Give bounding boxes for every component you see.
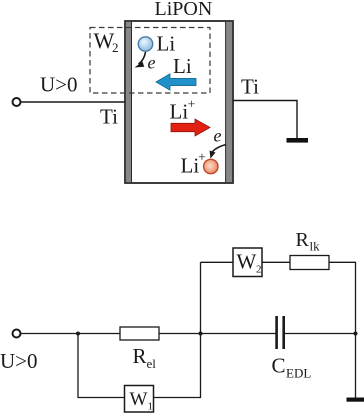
svg-text:R: R bbox=[133, 344, 147, 368]
svg-text:el: el bbox=[147, 356, 157, 371]
svg-text:2: 2 bbox=[256, 264, 262, 276]
capacitor CEDL bbox=[275, 316, 278, 349]
wire node A down bbox=[78, 334, 125, 398]
wire left electrode bbox=[21, 101, 125, 103]
svg-text:1: 1 bbox=[148, 401, 154, 413]
svg-text:W: W bbox=[130, 389, 148, 410]
svg-text:U>0: U>0 bbox=[40, 73, 78, 97]
svg-text:Li: Li bbox=[173, 54, 192, 78]
wire Rel to capacitor bbox=[159, 333, 276, 335]
svg-text:EDL: EDL bbox=[286, 366, 311, 381]
svg-text:U>0: U>0 bbox=[0, 349, 38, 373]
wire top branch to W2 bbox=[201, 261, 234, 263]
ground circuit bbox=[347, 398, 364, 402]
svg-text:R: R bbox=[296, 229, 310, 251]
electron arrow right bbox=[212, 145, 227, 154]
svg-text:LiPON: LiPON bbox=[155, 0, 213, 20]
electron arrow left bbox=[139, 52, 146, 64]
wire Rlk to right rail bbox=[329, 262, 356, 397]
wire right electrode to ground bbox=[233, 101, 297, 139]
Li atom blue bbox=[138, 37, 152, 51]
resistor Rlk bbox=[290, 256, 329, 270]
node B junction bbox=[199, 332, 203, 336]
node C junction bbox=[354, 332, 358, 336]
warburg W1 bbox=[125, 386, 154, 413]
wire input bbox=[21, 333, 120, 335]
wire W1 to node B riser bbox=[154, 262, 201, 397]
svg-text:e: e bbox=[214, 126, 222, 146]
electrode left Ti bbox=[125, 21, 131, 182]
svg-text:+: + bbox=[188, 98, 196, 113]
svg-text:Li: Li bbox=[170, 100, 189, 124]
red arrow Li+ flux bbox=[171, 119, 210, 136]
svg-text:e: e bbox=[148, 53, 156, 73]
cell body bbox=[125, 21, 233, 183]
ground top diagram bbox=[287, 138, 309, 143]
svg-text:Li: Li bbox=[181, 154, 200, 178]
wire W2 to Rlk bbox=[262, 261, 290, 263]
svg-text:Li: Li bbox=[157, 32, 176, 56]
svg-text:+: + bbox=[198, 151, 206, 166]
svg-text:Ti: Ti bbox=[100, 105, 118, 129]
terminal U>0 top bbox=[13, 98, 21, 106]
terminal U>0 circuit bbox=[13, 330, 21, 338]
svg-text:lk: lk bbox=[310, 239, 321, 254]
node A junction bbox=[76, 332, 80, 336]
resistor Rel bbox=[120, 327, 159, 340]
svg-text:2: 2 bbox=[112, 40, 119, 55]
svg-text:Ti: Ti bbox=[241, 75, 259, 99]
Li+ ion red bbox=[204, 159, 218, 173]
svg-text:C: C bbox=[272, 354, 286, 378]
wire capacitor to node C bbox=[285, 333, 356, 335]
svg-text:W: W bbox=[237, 250, 257, 274]
warburg W2 bbox=[233, 248, 262, 277]
blue arrow Li flux bbox=[156, 74, 196, 90]
electrode right Ti bbox=[226, 21, 233, 182]
dashed region W2 bbox=[90, 28, 210, 94]
